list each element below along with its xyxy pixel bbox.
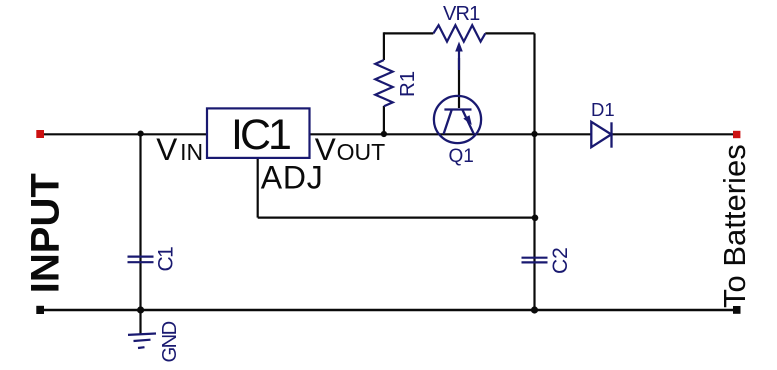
- svg-text:VR1: VR1: [443, 3, 480, 25]
- svg-text:To Batteries: To Batteries: [717, 144, 752, 308]
- svg-text:IC1: IC1: [231, 111, 290, 159]
- svg-text:GND: GND: [159, 321, 181, 362]
- svg-text:D1: D1: [591, 99, 615, 120]
- svg-text:ADJ: ADJ: [261, 159, 324, 195]
- svg-text:Q1: Q1: [449, 146, 474, 167]
- svg-text:INPUT: INPUT: [23, 173, 67, 293]
- svg-text:R1: R1: [396, 71, 419, 97]
- svg-text:C2: C2: [549, 247, 572, 274]
- svg-text:C1: C1: [155, 247, 178, 272]
